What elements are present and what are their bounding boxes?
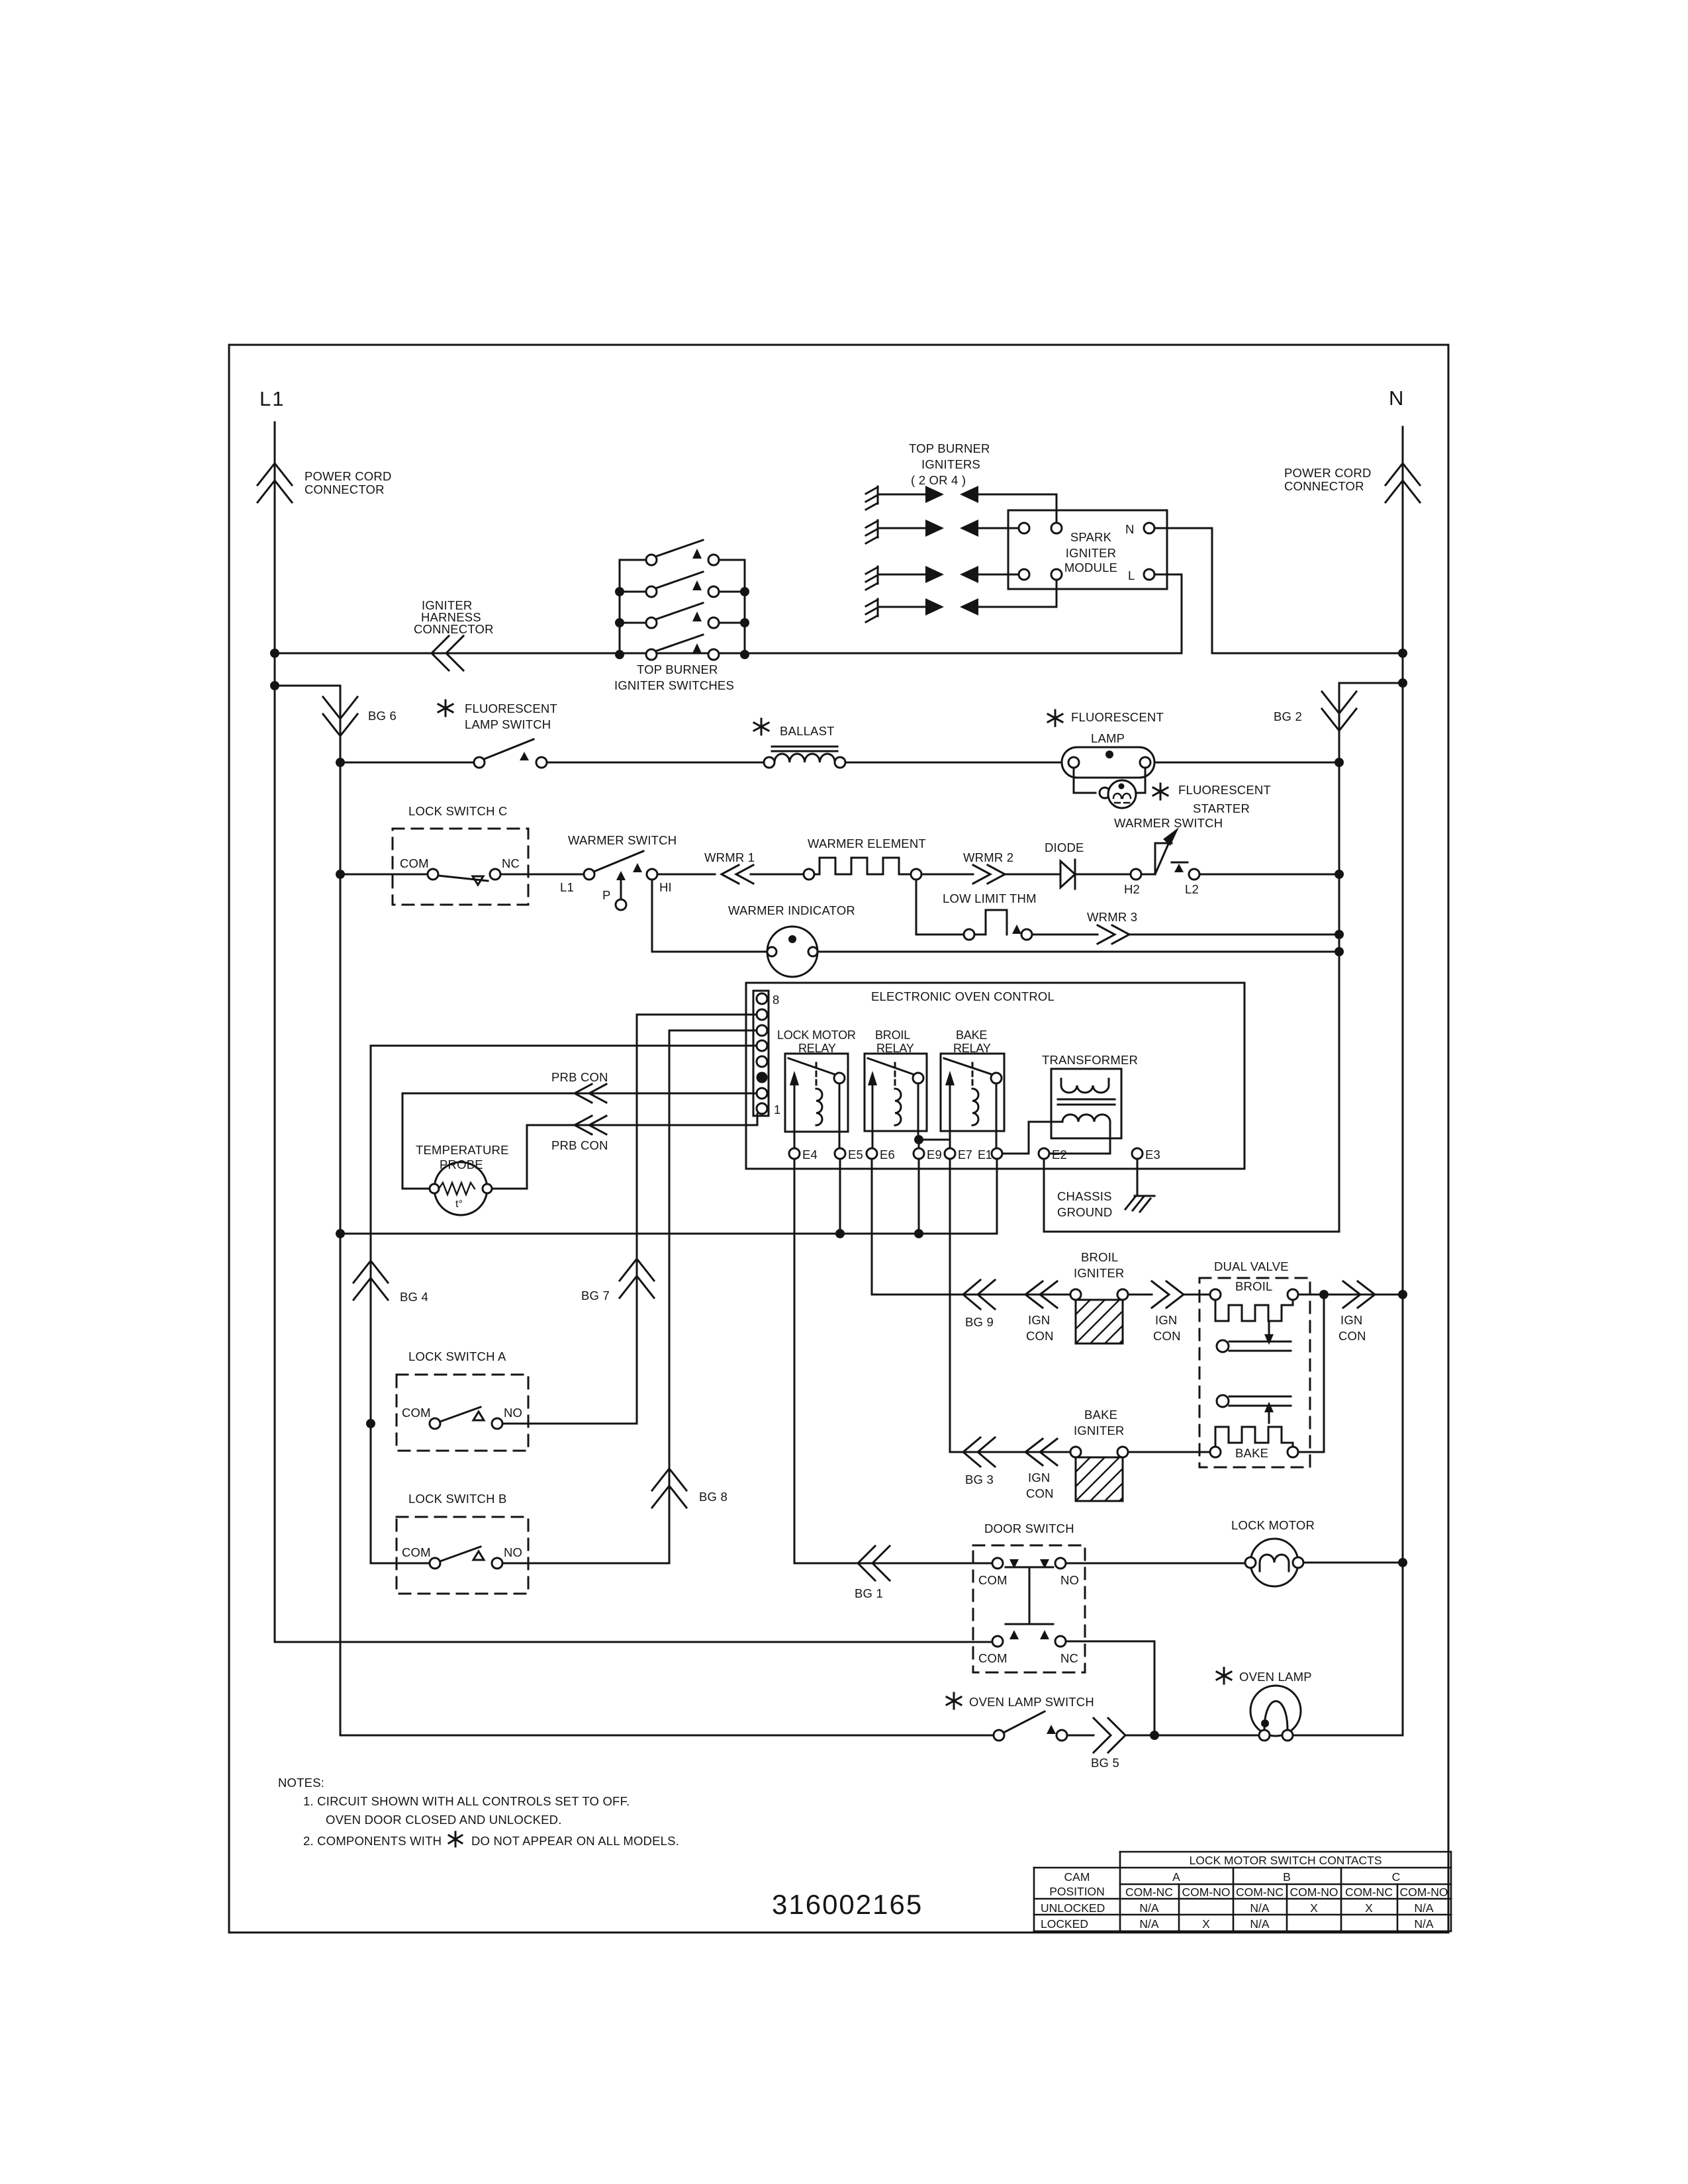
svg-text:BG 4: BG 4	[400, 1290, 428, 1304]
connector PRB CON upper	[575, 1084, 606, 1103]
fluorescent lamp	[1062, 747, 1154, 778]
svg-text:COM-NC: COM-NC	[1345, 1886, 1393, 1899]
svg-text:COM-NO: COM-NO	[1182, 1886, 1231, 1899]
svg-text:BG 9: BG 9	[965, 1315, 994, 1329]
connector WRMR 2	[973, 865, 1005, 884]
wire warmer row left	[340, 874, 428, 876]
wire low limit branch	[916, 880, 964, 934]
wire to WRMR1	[657, 874, 804, 876]
svg-text:N: N	[1125, 522, 1135, 536]
svg-text:STARTER: STARTER	[1193, 801, 1250, 815]
wire BG7 rail	[502, 1015, 637, 1424]
wire lamp to N rail	[1293, 1735, 1403, 1737]
svg-text:X: X	[1365, 1901, 1373, 1915]
svg-text:E2: E2	[1052, 1148, 1067, 1161]
svg-text:SPARK: SPARK	[1070, 530, 1112, 544]
svg-text:OVEN LAMP SWITCH: OVEN LAMP SWITCH	[969, 1695, 1094, 1709]
dual valve box	[1199, 1278, 1310, 1467]
wire indicator to BG2 rail	[818, 951, 1339, 953]
node H2	[1131, 869, 1141, 880]
svg-text:OVEN LAMP: OVEN LAMP	[1239, 1670, 1312, 1684]
fluorescent starter	[1074, 768, 1145, 808]
svg-text:N/A: N/A	[1250, 1901, 1270, 1915]
svg-text:E7: E7	[958, 1148, 972, 1161]
top burner igniter switches bank	[615, 540, 749, 660]
svg-text:ELECTRONIC OVEN CONTROL: ELECTRONIC OVEN CONTROL	[871, 989, 1055, 1003]
broil gas outlet	[1217, 1340, 1291, 1352]
svg-text:DUAL VALVE: DUAL VALVE	[1214, 1259, 1289, 1273]
ballast L1coil	[764, 747, 845, 768]
svg-text:IGNITER: IGNITER	[1066, 546, 1116, 560]
wire branch to BG6	[275, 685, 340, 687]
asterisk ballast	[754, 719, 769, 735]
connector IGN CON broil left	[1025, 1281, 1057, 1308]
wire N rail	[1402, 427, 1404, 1735]
wire bake igniter to valve	[1128, 1451, 1210, 1453]
svg-text:CONNECTOR: CONNECTOR	[1284, 479, 1364, 493]
svg-text:COM-NO: COM-NO	[1400, 1886, 1448, 1899]
connector WRMR 3	[1098, 925, 1129, 944]
lock switch A box	[397, 1375, 528, 1451]
svg-text:FLUORESCENT: FLUORESCENT	[1178, 783, 1271, 797]
svg-text:1. CIRCUIT SHOWN WITH ALL CONT: 1. CIRCUIT SHOWN WITH ALL CONTROLS SET T…	[303, 1794, 630, 1808]
svg-text:IGN: IGN	[1155, 1313, 1178, 1327]
wire E9 stub	[918, 1159, 920, 1234]
svg-text:CONNECTOR: CONNECTOR	[305, 482, 385, 496]
wire valve return	[1298, 1295, 1324, 1452]
connector BG 4	[353, 1261, 388, 1300]
svg-text:POWER CORD: POWER CORD	[305, 469, 392, 483]
svg-text:E6: E6	[880, 1148, 895, 1161]
wire to WRMR3	[1032, 934, 1339, 936]
wire branch N to BG2	[1044, 683, 1403, 1232]
connector BG 1	[858, 1546, 890, 1580]
svg-text:IGNITER: IGNITER	[1074, 1424, 1124, 1437]
svg-text:FLUORESCENT: FLUORESCENT	[1071, 710, 1164, 724]
svg-text:BG 7: BG 7	[581, 1289, 610, 1302]
svg-text:WRMR 3: WRMR 3	[1087, 910, 1137, 924]
terminal E4	[789, 1148, 800, 1159]
connector PRB CON lower	[575, 1116, 606, 1134]
svg-text:FLUORESCENT: FLUORESCENT	[465, 702, 557, 715]
broil relay K2	[865, 1054, 927, 1131]
connector IGN CON bake	[1025, 1439, 1057, 1465]
wire to WRMR2	[921, 874, 1060, 876]
asterisk fluorescent lamp	[1048, 710, 1062, 726]
wire LM relay to E4 E5	[794, 1083, 839, 1148]
bake valve arrow	[1264, 1402, 1274, 1423]
svg-text:PRB CON: PRB CON	[551, 1070, 608, 1084]
wire pin2 to BG7	[637, 1014, 757, 1016]
igniter 4	[866, 580, 1056, 622]
terminal E2	[1039, 1148, 1049, 1159]
svg-text:BG 6: BG 6	[368, 709, 397, 723]
svg-text:H2: H2	[1124, 882, 1140, 896]
wire E2 down and right	[1043, 1159, 1045, 1232]
svg-text:LOW LIMIT THM: LOW LIMIT THM	[943, 891, 1037, 905]
svg-text:BROIL: BROIL	[1081, 1250, 1119, 1264]
lock motor switch contacts table	[1034, 1852, 1451, 1931]
door switch upper contacts	[992, 1558, 1066, 1624]
svg-text:X: X	[1310, 1901, 1318, 1915]
svg-text:BG 3: BG 3	[965, 1473, 994, 1486]
lock switch C contacts	[428, 869, 500, 885]
svg-text:LOCK MOTOR SWITCH CONTACTS: LOCK MOTOR SWITCH CONTACTS	[1189, 1854, 1382, 1867]
terminal E9	[914, 1148, 924, 1159]
svg-text:TEMPERATURE: TEMPERATURE	[416, 1143, 509, 1157]
svg-text:NO: NO	[504, 1545, 522, 1559]
svg-text:CON: CON	[1026, 1329, 1054, 1343]
wire E3 chassis	[1137, 1159, 1139, 1195]
door switch lower contacts	[992, 1630, 1066, 1647]
svg-text:LOCK MOTOR: LOCK MOTOR	[777, 1028, 856, 1042]
svg-text:1: 1	[774, 1103, 781, 1116]
connector power cord N	[1385, 463, 1420, 502]
svg-text:TOP BURNER: TOP BURNER	[909, 441, 990, 455]
svg-text:OVEN DOOR CLOSED AND UNLOCKED.: OVEN DOOR CLOSED AND UNLOCKED.	[326, 1813, 562, 1827]
junction L1 main	[270, 649, 279, 658]
wire broil valve to N	[1298, 1294, 1403, 1296]
svg-text:BAKE: BAKE	[1235, 1446, 1268, 1460]
connector BG 7	[620, 1259, 654, 1298]
junction lamp row BG2	[1335, 758, 1344, 767]
asterisk fluorescent starter	[1153, 784, 1168, 799]
svg-text:CON: CON	[1153, 1329, 1181, 1343]
warmer switch hi-limit blade	[1141, 827, 1188, 874]
wire module N to neutral	[1154, 528, 1212, 653]
svg-text:N/A: N/A	[1414, 1901, 1434, 1915]
wire main L1 horizontal	[275, 653, 1182, 655]
svg-text:L: L	[1128, 569, 1135, 582]
connector BG 2	[1322, 692, 1356, 731]
fluorescent lamp switch S1	[474, 739, 547, 768]
svg-text:RELAY: RELAY	[798, 1042, 836, 1055]
lock switch B box	[397, 1517, 528, 1594]
wire broil relay to E6 E9	[872, 1083, 950, 1148]
svg-text:IGNITERS: IGNITERS	[921, 457, 980, 471]
svg-text:P: P	[602, 888, 611, 902]
svg-text:TRANSFORMER: TRANSFORMER	[1042, 1053, 1138, 1067]
svg-text:NC: NC	[502, 856, 520, 870]
wire door NO to lock motor	[1066, 1563, 1250, 1565]
svg-text:B: B	[1283, 1870, 1291, 1884]
svg-text:N/A: N/A	[1139, 1917, 1159, 1931]
svg-text:COM: COM	[978, 1573, 1008, 1587]
svg-text:E1: E1	[978, 1148, 992, 1161]
svg-text:NOTES:: NOTES:	[278, 1776, 324, 1790]
svg-text:PRB CON: PRB CON	[551, 1138, 608, 1152]
electronic oven control box	[746, 983, 1244, 1169]
broil solenoid	[1210, 1289, 1298, 1321]
svg-text:POSITION: POSITION	[1049, 1885, 1105, 1898]
svg-text:N/A: N/A	[1250, 1917, 1270, 1931]
connector IGN CON right	[1343, 1281, 1375, 1308]
wire E7 to bake chain	[950, 1159, 1070, 1452]
svg-text:WARMER SWITCH: WARMER SWITCH	[568, 833, 677, 847]
border frame	[229, 345, 1448, 1933]
svg-text:A: A	[1172, 1870, 1180, 1884]
wire L2 to BG2 rail	[1199, 874, 1339, 876]
connector BG 8	[652, 1469, 686, 1508]
transformer T1	[1049, 1069, 1121, 1154]
terminal E3	[1132, 1148, 1143, 1159]
svg-text:IGN: IGN	[1028, 1313, 1051, 1327]
lock switch B contacts	[430, 1547, 502, 1569]
warmer switch S2	[584, 851, 657, 910]
svg-text:DOOR SWITCH: DOOR SWITCH	[984, 1522, 1074, 1535]
svg-text:WRMR 1: WRMR 1	[704, 850, 755, 864]
wire pin4 to BG4	[371, 1045, 757, 1047]
wire lock motor to N	[1303, 1562, 1403, 1564]
svg-text:DO NOT APPEAR ON ALL MODELS.: DO NOT APPEAR ON ALL MODELS.	[471, 1834, 679, 1848]
bake igniter	[1070, 1447, 1128, 1501]
svg-text:L1: L1	[259, 387, 285, 410]
wire E5 stub	[839, 1159, 841, 1234]
svg-text:WARMER SWITCH: WARMER SWITCH	[1114, 816, 1223, 830]
svg-text:N/A: N/A	[1414, 1917, 1434, 1931]
wire module L to line	[1154, 574, 1182, 653]
svg-text:( 2 OR 4 ): ( 2 OR 4 )	[911, 473, 966, 487]
svg-text:GROUND: GROUND	[1057, 1205, 1112, 1219]
svg-text:2. COMPONENTS WITH: 2. COMPONENTS WITH	[303, 1834, 442, 1848]
wire to BG5	[1067, 1735, 1259, 1737]
wire pin1 probe	[527, 1114, 757, 1125]
warmer element R1	[804, 858, 921, 880]
svg-text:CON: CON	[1026, 1486, 1054, 1500]
svg-text:UNLOCKED: UNLOCKED	[1041, 1901, 1105, 1915]
svg-text:E3: E3	[1145, 1148, 1160, 1161]
svg-text:LOCK MOTOR: LOCK MOTOR	[1231, 1518, 1315, 1532]
wire door NC down to lamp row	[1066, 1641, 1154, 1735]
bake solenoid	[1210, 1427, 1298, 1457]
svg-text:CAM: CAM	[1064, 1870, 1090, 1884]
svg-text:LOCK SWITCH B: LOCK SWITCH B	[408, 1492, 507, 1506]
diode D1	[1060, 860, 1131, 889]
connector BG 6	[323, 697, 357, 736]
svg-text:LAMP SWITCH: LAMP SWITCH	[465, 717, 551, 731]
svg-text:C: C	[1392, 1870, 1401, 1884]
junction N main	[1398, 649, 1407, 658]
connector BG 9	[963, 1280, 995, 1309]
svg-text:LAMP: LAMP	[1091, 731, 1125, 745]
svg-text:CHASSIS: CHASSIS	[1057, 1189, 1112, 1203]
lock switch A contacts	[430, 1407, 502, 1429]
svg-text:BG 2: BG 2	[1274, 709, 1302, 723]
svg-text:316002165: 316002165	[772, 1889, 923, 1920]
svg-text:IGN: IGN	[1028, 1471, 1051, 1484]
wire bake relay to E7 E1	[950, 1083, 996, 1148]
svg-text:8: 8	[773, 993, 780, 1007]
svg-text:X: X	[1202, 1917, 1210, 1931]
terminal E1	[992, 1148, 1002, 1159]
svg-text:LOCK SWITCH C: LOCK SWITCH C	[408, 804, 508, 818]
svg-text:POWER CORD: POWER CORD	[1284, 466, 1372, 480]
asterisk oven lamp switch	[947, 1693, 961, 1709]
lock motor M1	[1245, 1539, 1303, 1586]
svg-text:N/A: N/A	[1139, 1901, 1159, 1915]
junction BG6 warmer row	[336, 870, 345, 879]
wire BG4 rail	[371, 1046, 430, 1563]
svg-text:WARMER ELEMENT: WARMER ELEMENT	[808, 837, 926, 850]
svg-text:COM-NC: COM-NC	[1125, 1886, 1173, 1899]
svg-text:LOCK SWITCH A: LOCK SWITCH A	[408, 1349, 506, 1363]
bake gas outlet	[1217, 1395, 1291, 1407]
svg-text:t°: t°	[455, 1199, 463, 1210]
wire probe right to pin1	[492, 1125, 527, 1189]
node L2	[1189, 869, 1199, 880]
wire probe left to pin7	[402, 1093, 430, 1189]
svg-text:COM: COM	[400, 856, 429, 870]
asterisk fluorescent lamp switch	[438, 700, 453, 716]
broil valve arrow	[1264, 1322, 1274, 1345]
svg-text:CONNECTOR: CONNECTOR	[414, 622, 494, 636]
svg-text:LOCKED: LOCKED	[1041, 1917, 1088, 1931]
svg-text:BROIL: BROIL	[1235, 1279, 1273, 1293]
svg-text:PROBE: PROBE	[440, 1158, 483, 1171]
svg-text:BG 5: BG 5	[1091, 1756, 1119, 1770]
wire E1 to transformer	[1002, 1122, 1051, 1154]
igniter 1	[866, 486, 1056, 523]
svg-text:BALLAST: BALLAST	[780, 724, 835, 738]
svg-text:IGNITER SWITCHES: IGNITER SWITCHES	[614, 678, 734, 692]
warmer indicator lamp	[652, 880, 767, 952]
terminal E7	[945, 1148, 955, 1159]
svg-text:TOP BURNER: TOP BURNER	[637, 662, 718, 676]
svg-text:E5: E5	[848, 1148, 863, 1161]
connector IGN CON broil right	[1152, 1281, 1184, 1308]
svg-text:E9: E9	[927, 1148, 942, 1161]
wire neutral bus under EOC	[340, 1159, 997, 1234]
junction BG6 fluorescent row	[336, 758, 345, 767]
svg-text:HI: HI	[659, 880, 672, 894]
low limit thermostat	[964, 910, 1032, 940]
asterisk oven lamp	[1217, 1668, 1231, 1684]
igniter 3	[866, 566, 1019, 590]
wire broil igniter to valve	[1128, 1294, 1210, 1296]
terminal E6	[867, 1148, 877, 1159]
broil igniter	[1070, 1289, 1128, 1343]
terminal E5	[835, 1148, 845, 1159]
svg-text:COM: COM	[402, 1545, 431, 1559]
lock switch C box	[393, 829, 528, 905]
svg-text:L2: L2	[1185, 882, 1199, 896]
svg-text:COM: COM	[402, 1406, 431, 1420]
temperature probe RT1	[430, 1162, 492, 1215]
svg-text:NC: NC	[1060, 1651, 1078, 1665]
svg-text:IGN: IGN	[1340, 1313, 1363, 1327]
svg-text:COM: COM	[978, 1651, 1008, 1665]
connector power cord L1	[258, 463, 292, 502]
connector igniter harness	[432, 636, 463, 670]
svg-text:WRMR 2: WRMR 2	[963, 850, 1013, 864]
svg-text:COM-NC: COM-NC	[1236, 1886, 1284, 1899]
svg-text:BAKE: BAKE	[956, 1028, 987, 1042]
wire L1 rail	[275, 422, 992, 1642]
oven lamp switch S3	[994, 1711, 1067, 1741]
wire pin3 to BG8	[669, 1030, 757, 1032]
wire E6 to broil chain	[872, 1159, 1070, 1295]
svg-text:BG 8: BG 8	[699, 1490, 727, 1504]
svg-text:IGNITER: IGNITER	[1074, 1266, 1124, 1280]
connector BG 3	[963, 1437, 995, 1467]
svg-text:RELAY: RELAY	[876, 1042, 914, 1055]
igniter 2	[866, 520, 1019, 543]
svg-text:DIODE: DIODE	[1045, 841, 1084, 854]
oven lamp	[1250, 1686, 1301, 1741]
wire main N horizontal	[1212, 653, 1403, 655]
svg-text:CON: CON	[1338, 1329, 1366, 1343]
svg-text:N: N	[1389, 387, 1405, 410]
svg-text:BG 1: BG 1	[855, 1586, 883, 1600]
svg-text:MODULE: MODULE	[1064, 561, 1117, 574]
wire E4 to door switch	[794, 1159, 992, 1563]
connector strip P1	[753, 991, 769, 1116]
svg-text:WARMER INDICATOR: WARMER INDICATOR	[728, 903, 855, 917]
svg-text:NO: NO	[504, 1406, 522, 1420]
spark igniter module U1	[1008, 510, 1167, 589]
bake relay K3	[941, 1054, 1004, 1131]
svg-text:NO: NO	[1060, 1573, 1079, 1587]
wire pin7 probe	[402, 1093, 757, 1095]
svg-text:COM-NO: COM-NO	[1290, 1886, 1338, 1899]
svg-text:E4: E4	[802, 1148, 818, 1161]
wire BG6 vertical rail	[340, 686, 994, 1735]
svg-text:BROIL: BROIL	[875, 1028, 910, 1042]
wire to warmer switch	[500, 874, 584, 876]
wire BG8 rail	[502, 1030, 669, 1563]
chassis ground symbol	[1125, 1196, 1154, 1212]
svg-text:L1: L1	[560, 880, 574, 894]
connector BG 5	[1094, 1718, 1125, 1752]
wire fluorescent row	[340, 762, 1339, 764]
asterisk note	[449, 1832, 462, 1846]
door switch box	[973, 1545, 1085, 1672]
svg-text:RELAY: RELAY	[953, 1042, 991, 1055]
svg-text:BAKE: BAKE	[1084, 1408, 1117, 1422]
lock motor relay K1	[785, 1054, 848, 1132]
connector WRMR 1	[722, 865, 753, 884]
